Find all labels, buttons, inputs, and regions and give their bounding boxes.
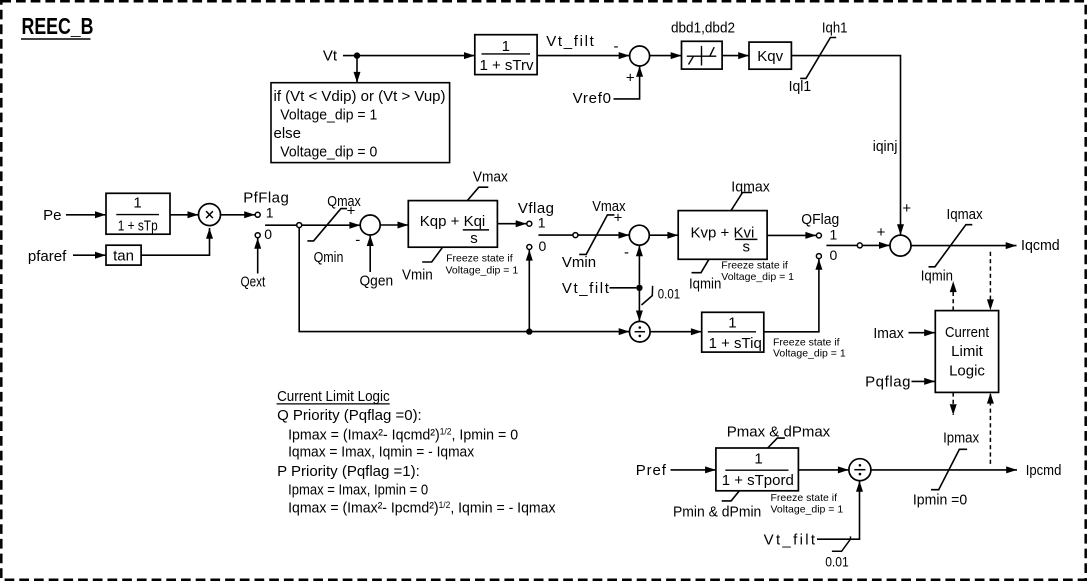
svg-text:Qgen: Qgen (360, 272, 394, 289)
svg-text:Voltage_dip = 1: Voltage_dip = 1 (446, 265, 519, 277)
svg-text:tan: tan (113, 248, 134, 265)
svg-text:0: 0 (539, 238, 547, 254)
svg-text:Current: Current (945, 324, 990, 341)
svg-text:Voltage_dip = 1: Voltage_dip = 1 (771, 504, 844, 516)
svg-text:-: - (624, 244, 629, 261)
svg-text:Vmin: Vmin (562, 254, 596, 271)
svg-text:Vmax: Vmax (473, 168, 508, 185)
svg-text:1 + sTiq: 1 + sTiq (709, 335, 762, 352)
svg-text:Iqh1: Iqh1 (822, 20, 848, 37)
svg-text:Ipmax = (Imax²- Iqcmd²)1/2, Ip: Ipmax = (Imax²- Iqcmd²)1/2, Ipmin = 0 (288, 426, 518, 443)
svg-text:Voltage_dip = 1: Voltage_dip = 1 (721, 271, 794, 283)
svg-text:Logic: Logic (949, 362, 985, 379)
svg-text:s: s (470, 230, 478, 247)
svg-text:Voltage_dip = 0: Voltage_dip = 0 (280, 143, 377, 160)
svg-text:1: 1 (830, 227, 838, 243)
svg-text:Iqmin: Iqmin (921, 267, 953, 284)
svg-text:Iqmax: Iqmax (947, 206, 984, 223)
svg-text:iqinj: iqinj (873, 138, 898, 155)
svg-text:Ipmax = Imax, Ipmin = 0: Ipmax = Imax, Ipmin = 0 (288, 482, 428, 499)
svg-text:+: + (347, 203, 356, 220)
svg-text:if (Vt < Vdip) or (Vt > Vup): if (Vt < Vdip) or (Vt > Vup) (274, 88, 446, 105)
svg-text:0.01: 0.01 (658, 286, 680, 302)
svg-text:Ipmin =0: Ipmin =0 (913, 491, 967, 508)
svg-text:Qext: Qext (241, 274, 266, 291)
svg-text:1 + sTpord: 1 + sTpord (722, 472, 794, 489)
svg-text:Iqmax = (Imax²- Ipcmd²)1/2, Iq: Iqmax = (Imax²- Ipcmd²)1/2, Iqmin = - Iq… (288, 500, 556, 517)
svg-text:Freeze state if: Freeze state if (721, 260, 788, 272)
svg-text:Pmin & dPmin: Pmin & dPmin (673, 503, 761, 520)
svg-text:1: 1 (754, 451, 762, 468)
svg-text:1: 1 (502, 38, 510, 55)
svg-text:Current Limit Logic: Current Limit Logic (277, 388, 390, 405)
svg-text:Vflag: Vflag (518, 200, 554, 217)
svg-text:Iqmax = Imax, Iqmin = - Iqmax: Iqmax = Imax, Iqmin = - Iqmax (288, 444, 474, 461)
svg-text:1 + sTp: 1 + sTp (118, 218, 158, 235)
svg-text:Iqmax: Iqmax (731, 178, 770, 195)
svg-text:1: 1 (728, 314, 736, 331)
svg-text:P Priority (Pqflag =1):: P Priority (Pqflag =1): (277, 463, 420, 480)
svg-text:-: - (614, 38, 619, 55)
svg-text:Kqv: Kqv (757, 48, 783, 65)
svg-text:Limit: Limit (951, 343, 984, 360)
svg-text:Vref0: Vref0 (573, 90, 611, 107)
svg-text:0: 0 (830, 247, 838, 263)
svg-text:Vmin: Vmin (402, 267, 433, 284)
svg-text:Vt_filt: Vt_filt (562, 280, 610, 297)
svg-text:Pe: Pe (43, 207, 61, 224)
svg-text:Imax: Imax (873, 325, 904, 342)
svg-text:+: + (626, 70, 635, 87)
svg-text:+: + (902, 200, 911, 217)
svg-text:Vt_filt: Vt_filt (764, 532, 816, 549)
svg-text:Iql1: Iql1 (789, 78, 812, 95)
svg-text:Vt: Vt (323, 47, 338, 64)
svg-text:Pqflag: Pqflag (865, 373, 910, 390)
svg-text:Pmax & dPmax: Pmax & dPmax (727, 424, 831, 441)
svg-text:else: else (274, 125, 302, 142)
svg-text:Kqp + Kqi: Kqp + Kqi (420, 213, 485, 230)
svg-text:Iqcmd: Iqcmd (1021, 237, 1060, 254)
svg-text:Vt_filt: Vt_filt (546, 33, 594, 50)
svg-text:pfaref: pfaref (28, 248, 67, 265)
svg-text:1: 1 (133, 195, 141, 212)
svg-text:Pref: Pref (636, 462, 667, 479)
svg-text:+: + (877, 224, 886, 241)
svg-text:Iqmin: Iqmin (689, 276, 721, 293)
svg-text:1 + sTrv: 1 + sTrv (480, 57, 535, 74)
svg-text:dbd1,dbd2: dbd1,dbd2 (671, 20, 735, 37)
svg-text:s: s (743, 239, 751, 256)
svg-text:1: 1 (266, 205, 274, 221)
svg-text:Q Priority (Pqflag =0):: Q Priority (Pqflag =0): (277, 407, 422, 424)
svg-text:Qmin: Qmin (314, 249, 344, 266)
svg-text:1: 1 (538, 215, 546, 231)
svg-text:0: 0 (264, 226, 272, 242)
svg-text:0.01: 0.01 (825, 553, 849, 569)
svg-text:Ipcmd: Ipcmd (1026, 462, 1062, 479)
svg-text:REEC_B: REEC_B (22, 13, 94, 39)
svg-text:Qmax: Qmax (327, 193, 361, 210)
svg-text:Voltage_dip = 1: Voltage_dip = 1 (280, 107, 377, 124)
svg-text:Freeze state if: Freeze state if (446, 253, 513, 265)
svg-text:Ipmax: Ipmax (943, 429, 980, 446)
svg-text:Voltage_dip = 1: Voltage_dip = 1 (773, 348, 846, 360)
svg-text:-: - (355, 231, 360, 248)
svg-text:+: + (614, 210, 623, 227)
svg-text:Freeze state if: Freeze state if (771, 492, 838, 504)
